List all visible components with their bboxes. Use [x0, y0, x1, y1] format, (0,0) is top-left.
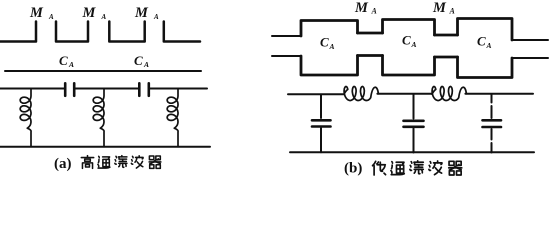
- svg-text:A: A: [449, 7, 456, 16]
- wire: (b) circuit top rail segment 1: [288, 93, 344, 95]
- wire: (a) circuit top rail segment 3: [150, 88, 207, 90]
- svg-text:M: M: [82, 5, 97, 21]
- label C_A box 2 (b): [402, 33, 417, 50]
- wire: (a) top electrode segment 2: [56, 22, 88, 42]
- wire: (a) circuit bottom rail: [0, 146, 210, 148]
- label M_A gap 3: [134, 5, 159, 21]
- waveguide output line bottom (b): [512, 57, 548, 59]
- cavity box 1 (b): [301, 21, 358, 76]
- caption (a) CJK 高通滤波器: [81, 156, 161, 169]
- wire: (a) middle electrode line: [5, 70, 201, 72]
- svg-text:C: C: [320, 35, 329, 50]
- capacitor C1 (b) shunt: [312, 95, 331, 153]
- capacitor C1 (a) series plates: [65, 83, 74, 96]
- svg-text:M: M: [354, 0, 369, 16]
- wire: (b) circuit bottom rail: [290, 151, 534, 153]
- capacitor C2 (b) shunt: [404, 94, 424, 153]
- svg-text:A: A: [101, 13, 107, 21]
- svg-text:C: C: [59, 53, 68, 68]
- inductor L2 (b) series coil: [432, 87, 466, 101]
- label C_A box 3 (b): [477, 34, 492, 51]
- wire: (a) circuit top rail segment 2: [76, 88, 139, 90]
- waveguide input line bottom (b): [272, 55, 301, 57]
- waveguide input line top (b): [272, 35, 301, 37]
- wire: (b) circuit top rail segment 3: [465, 93, 533, 95]
- inductor L1 (b) series coil: [344, 87, 378, 101]
- wire: (a) top electrode segment 4: [164, 22, 200, 42]
- cavity box 2 (b): [383, 20, 435, 76]
- svg-text:A: A: [329, 42, 335, 51]
- label M_A neck 1 (b): [354, 0, 378, 16]
- svg-text:(a): (a): [54, 156, 72, 172]
- svg-text:A: A: [371, 7, 378, 16]
- capacitor C3 (b) shunt, scan-dashed leads: [483, 94, 502, 153]
- svg-text:C: C: [134, 53, 143, 68]
- svg-text:C: C: [477, 34, 486, 49]
- label C_A box 1 (b): [320, 35, 335, 52]
- svg-text:M: M: [29, 5, 44, 21]
- caption (b) CJK 低通滤波器: [373, 161, 462, 175]
- label C_A 2: [134, 53, 149, 69]
- wire: (a) top electrode baseline segment 1: [0, 22, 36, 42]
- caption (a) prefix: [54, 156, 72, 172]
- svg-text:M: M: [134, 5, 149, 21]
- waveguide output line top (b): [512, 39, 548, 41]
- wire: (a) circuit top rail segment 1: [0, 88, 64, 90]
- svg-text:A: A: [411, 40, 417, 49]
- inductor L2 (a) shunt coil: [93, 89, 104, 147]
- cavity box 3 (b): [458, 19, 513, 78]
- coupling neck M_A 2 (b): [435, 35, 458, 57]
- capacitor C2 (a) series plates: [139, 83, 149, 96]
- svg-text:A: A: [486, 41, 492, 50]
- svg-text:(b): (b): [344, 161, 362, 177]
- caption (b) prefix: [344, 161, 362, 177]
- wire: (b) circuit top rail segment 2: [377, 93, 432, 95]
- label M_A gap 2: [82, 5, 107, 21]
- coupling neck M_A 1 (b): [358, 33, 383, 56]
- inductor L3 (a) shunt coil: [167, 89, 178, 147]
- label C_A 1: [59, 53, 74, 69]
- svg-text:A: A: [153, 13, 159, 21]
- svg-text:A: A: [48, 13, 54, 21]
- svg-text:M: M: [432, 0, 447, 16]
- label M_A gap 1: [29, 5, 54, 21]
- wire: (a) top electrode segment 3: [109, 22, 144, 42]
- inductor L1 (a) shunt coil: [20, 89, 31, 147]
- label M_A neck 2 (b): [432, 0, 456, 16]
- svg-text:A: A: [68, 60, 74, 69]
- svg-text:C: C: [402, 33, 411, 48]
- svg-text:A: A: [143, 60, 149, 69]
